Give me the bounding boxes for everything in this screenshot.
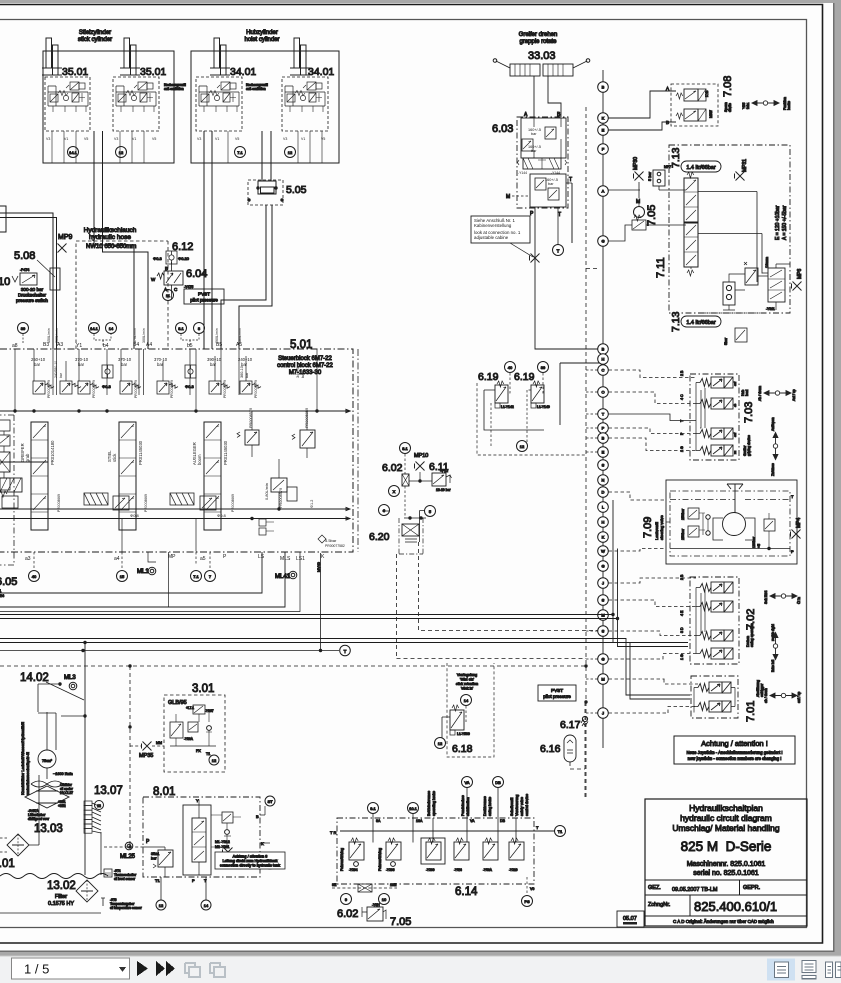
svg-text:PR0008579: PR0008579 xyxy=(170,380,174,398)
svg-text:PR01145030: PR01145030 xyxy=(138,440,143,465)
svg-text:Greifer drehen: Greifer drehen xyxy=(519,32,558,38)
svg-text:V1: V1 xyxy=(132,137,136,141)
svg-text:auf / up: auf / up xyxy=(797,692,801,703)
connector circle 12b xyxy=(285,147,296,158)
svg-text:13.01: 13.01 xyxy=(0,858,15,870)
filter 13.02 xyxy=(76,880,98,902)
svg-text:load: load xyxy=(745,389,749,396)
small valve below xyxy=(735,328,747,342)
svg-text:control block 6M7-22: control block 6M7-22 xyxy=(277,363,333,369)
svg-text:stick retention: stick retention xyxy=(456,682,478,686)
svg-text:14: 14 xyxy=(204,903,209,908)
inner dash-dot xyxy=(670,491,790,556)
svg-text:MM: MM xyxy=(156,741,162,745)
right circles xyxy=(265,796,275,806)
svg-text:M: M xyxy=(601,677,604,682)
7.11 spool lower xyxy=(684,223,698,267)
svg-text:18-19 bar: 18-19 bar xyxy=(436,488,451,492)
fan xyxy=(31,768,63,787)
oval 1.4ltr top xyxy=(681,161,721,172)
secondary valves right xyxy=(237,366,345,548)
svg-text:T: T xyxy=(557,249,560,254)
svg-text:14.02: 14.02 xyxy=(20,672,49,684)
svg-text:bar: bar xyxy=(245,372,249,378)
svg-text:grapple rotate: grapple rotate xyxy=(519,39,557,45)
svg-text:170L/min: 170L/min xyxy=(133,328,137,343)
LS return wire xyxy=(0,552,262,593)
lower manifold xyxy=(530,174,566,207)
valve 6.18 xyxy=(452,705,459,711)
svg-text:L1-Y149: L1-Y149 xyxy=(537,405,550,409)
svg-text:B: B xyxy=(602,85,605,90)
tank wavy line xyxy=(0,874,108,879)
valves xyxy=(340,838,364,872)
dashed line y666 xyxy=(0,665,586,667)
small body xyxy=(402,474,409,486)
svg-text:ST: ST xyxy=(267,799,273,804)
long wire to 7.02 P xyxy=(0,615,688,643)
circle 14 xyxy=(461,695,472,706)
svg-text:7.01: 7.01 xyxy=(745,701,757,722)
svg-text:new joysticks - connection num: new joysticks - connection numbers are c… xyxy=(688,756,782,761)
svg-text:P: P xyxy=(791,549,794,554)
svg-text:6.05: 6.05 xyxy=(0,576,17,588)
svg-text:2 B: 2 B xyxy=(680,370,684,376)
svg-text:Kabinenverstellung: Kabinenverstellung xyxy=(474,223,512,228)
svg-text:7.1: 7.1 xyxy=(237,150,243,155)
svg-text:MP4: MP4 xyxy=(796,518,802,529)
svg-text:T R: T R xyxy=(330,830,336,835)
svg-text:5.5bar: 5.5bar xyxy=(325,538,337,543)
dashed valve box 2 xyxy=(113,77,159,131)
svg-text:825 M D-Serie: 825 M D-Serie xyxy=(681,839,772,854)
svg-text:180bar: 180bar xyxy=(752,536,756,548)
svg-text:8.01: 8.01 xyxy=(153,786,175,798)
svg-text:Ab / down: Ab / down xyxy=(758,386,762,401)
dashed box 6.19 xyxy=(477,383,586,455)
circle 12 xyxy=(517,441,528,452)
svg-text:6.19: 6.19 xyxy=(478,371,499,383)
svg-text:5.05: 5.05 xyxy=(286,184,307,196)
bottom line xyxy=(0,912,101,914)
svg-text:14.1: 14.1 xyxy=(69,150,78,155)
svg-text:bar: bar xyxy=(548,182,554,186)
risers to 7.09 xyxy=(613,500,618,619)
svg-text:-Y475: -Y475 xyxy=(184,285,193,289)
svg-text:Y: Y xyxy=(196,798,199,803)
svg-text:O: O xyxy=(601,390,604,395)
port labels xyxy=(680,370,684,452)
svg-text:B: B xyxy=(165,266,168,271)
wire from block to bus at 362 xyxy=(560,363,603,425)
svg-text:7.08: 7.08 xyxy=(722,76,734,97)
main gallery line xyxy=(0,409,350,412)
circle 11 xyxy=(163,290,174,301)
vertical feed lines in sections xyxy=(15,349,317,411)
PVST pilot box xyxy=(538,685,576,701)
svg-text:6.03: 6.03 xyxy=(492,123,513,135)
svg-text:9.1: 9.1 xyxy=(370,806,376,811)
svg-text:14: 14 xyxy=(109,326,114,331)
svg-text:180L/min: 180L/min xyxy=(238,328,242,343)
svg-text:MBW: MBW xyxy=(709,110,713,118)
svg-text:300L/min: 300L/min xyxy=(142,328,146,343)
svg-text:3 D: 3 D xyxy=(680,627,684,633)
pilot modules row xyxy=(0,478,235,518)
svg-text:5 bar: 5 bar xyxy=(647,171,652,181)
svg-text:6.02: 6.02 xyxy=(337,908,358,920)
svg-text:7.1: 7.1 xyxy=(193,574,199,579)
circle 39 xyxy=(18,323,29,334)
svg-text:P: P xyxy=(602,426,605,431)
dash-dot box xyxy=(690,374,739,460)
svg-text:-P474: -P474 xyxy=(20,268,29,272)
svg-text:-P15: -P15 xyxy=(28,817,35,821)
wire box2 down to 5.05 right xyxy=(270,131,272,181)
wire from bus y190 xyxy=(609,182,687,198)
svg-text:6.17: 6.17 xyxy=(560,719,581,731)
spring bottom xyxy=(0,491,7,497)
dashed stubs xyxy=(609,679,699,713)
svg-text:PR0008579: PR0008579 xyxy=(92,380,96,398)
svg-text:bar: bar xyxy=(121,362,128,367)
6.17 check xyxy=(582,716,587,721)
steering wheel xyxy=(727,484,743,513)
dashed link y658.5 xyxy=(397,658,587,660)
wire box1 to A4 xyxy=(103,131,149,349)
stems xyxy=(373,788,516,843)
svg-text:LS: LS xyxy=(258,554,265,560)
svg-text:M: M xyxy=(601,613,604,618)
svg-text:12: 12 xyxy=(288,150,293,155)
bottom ports xyxy=(25,554,325,562)
svg-text:Achtung / attention 8: Achtung / attention 8 xyxy=(233,855,268,859)
svg-text:'stick in': 'stick in' xyxy=(461,687,474,691)
relief valves row xyxy=(33,381,54,394)
gauge block xyxy=(723,282,735,305)
orifice mid2 xyxy=(185,365,196,378)
svg-text:V5: V5 xyxy=(152,137,156,141)
svg-text:PX: PX xyxy=(196,749,201,753)
leader from note xyxy=(510,243,533,257)
svg-text:ML25: ML25 xyxy=(120,854,136,860)
wire 5.05 to A5 xyxy=(239,205,272,349)
circle 12 xyxy=(435,738,446,749)
svg-text:C A D Original: Änderungen nur: C A D Original: Änderungen nur über CAD … xyxy=(673,918,774,924)
big dashed elbow xyxy=(419,542,598,631)
svg-text:Steuerblock 6M7-22: Steuerblock 6M7-22 xyxy=(278,356,332,362)
svg-text:hoist cylinder: hoist cylinder xyxy=(244,37,279,43)
svg-text:10A: 10A xyxy=(416,819,423,823)
circle 6 xyxy=(379,505,390,516)
svg-text:V1: V1 xyxy=(301,137,305,141)
svg-text:operating brake: operating brake xyxy=(432,791,436,816)
tiny texts right of valves xyxy=(733,382,737,454)
svg-text:13.07: 13.07 xyxy=(94,785,123,797)
right relief xyxy=(764,519,775,531)
svg-text:a8: a8 xyxy=(12,343,18,349)
svg-text:LS1: LS1 xyxy=(296,556,305,562)
svg-text:MP35: MP35 xyxy=(139,753,153,759)
svg-text:HY-ÖL57: HY-ÖL57 xyxy=(60,791,73,795)
dashed valve box 4 xyxy=(282,77,328,131)
svg-text:PVST: PVST xyxy=(198,292,210,297)
dashes from circle 81 xyxy=(404,454,406,518)
svg-text:6.04: 6.04 xyxy=(186,268,207,280)
svg-text:V5: V5 xyxy=(84,137,88,141)
svg-text:P: P xyxy=(192,878,195,883)
cylinder 4 xyxy=(290,38,310,75)
dashed drop x130 xyxy=(129,666,131,846)
svg-text:Z1: Z1 xyxy=(0,589,1,593)
wires from bus xyxy=(609,91,677,130)
svg-text:VA: VA xyxy=(464,780,469,785)
svg-text:Auf / up: Auf / up xyxy=(792,389,796,401)
svg-text:+P12: +P12 xyxy=(440,469,448,473)
link to circle5 elbow xyxy=(420,511,426,543)
svg-text:1 G: 1 G xyxy=(680,654,684,660)
svg-text:griping device: griping device xyxy=(747,435,751,456)
svg-text:Φ0.8: Φ0.8 xyxy=(130,513,140,518)
svg-text:39: 39 xyxy=(541,365,546,370)
svg-text:14: 14 xyxy=(464,698,469,703)
svg-text:V0: V0 xyxy=(530,887,534,891)
svg-text:GEPR.: GEPR. xyxy=(743,885,761,891)
svg-text:Maschinennr. 825.0.1061: Maschinennr. 825.0.1061 xyxy=(687,861,766,868)
svg-text:B: B xyxy=(256,814,259,819)
svg-text:pressure switch: pressure switch xyxy=(16,298,48,303)
dashed box xyxy=(164,695,225,772)
MP4 xyxy=(791,530,801,539)
svg-text:0-80L/min: 0-80L/min xyxy=(265,483,269,500)
dashes from accumulator xyxy=(570,702,585,798)
svg-text:9A: 9A xyxy=(376,819,381,823)
TOOLBAR xyxy=(0,956,841,983)
svg-text:B: B xyxy=(602,347,605,352)
svg-text:V5: V5 xyxy=(235,137,239,141)
svg-text:a3: a3 xyxy=(25,556,31,562)
svg-text:Φ1.2: Φ1.2 xyxy=(310,500,314,508)
ML25 xyxy=(125,842,133,850)
svg-text:Vorsteuerung: Vorsteuerung xyxy=(515,795,519,816)
big dash-dot box xyxy=(669,145,790,313)
svg-text:T1: T1 xyxy=(558,829,563,834)
svg-text:7.09: 7.09 xyxy=(642,517,654,538)
dash-dot box xyxy=(337,818,534,884)
solenoid valves xyxy=(700,377,733,388)
valve a xyxy=(676,93,683,99)
6.20 valve xyxy=(402,524,419,536)
disabled icon 1 xyxy=(185,963,200,977)
wires to 6.03 xyxy=(534,76,561,117)
svg-text:1 G: 1 G xyxy=(680,446,684,452)
svg-text:adjustable cabine: adjustable cabine xyxy=(474,235,509,240)
svg-text:300-20 bar: 300-20 bar xyxy=(21,287,44,292)
heat exchanger xyxy=(25,786,69,808)
svg-text:1 / 5: 1 / 5 xyxy=(24,962,49,977)
svg-text:7.11: 7.11 xyxy=(655,257,667,278)
svg-text:Pendelachse: Pendelachse xyxy=(461,795,465,816)
svg-text:MP6: MP6 xyxy=(797,269,803,280)
svg-text:S: S xyxy=(602,598,605,603)
svg-text:Hydraulikschaltplan: Hydraulikschaltplan xyxy=(689,803,763,813)
svg-text:stick: stick xyxy=(112,453,117,462)
svg-text:a4: a4 xyxy=(114,556,120,562)
circle 81 xyxy=(400,443,411,454)
top ports xyxy=(12,342,242,349)
svg-text:grab: grab xyxy=(25,453,30,462)
svg-text:5.08: 5.08 xyxy=(14,250,35,262)
svg-text:V3: V3 xyxy=(114,137,118,141)
svg-text:75cm³: 75cm³ xyxy=(42,759,53,763)
T wire solid xyxy=(609,414,697,421)
svg-text:35.01: 35.01 xyxy=(140,66,166,78)
svg-text:7.05: 7.05 xyxy=(390,916,411,928)
svg-text:Sek 8M4: Sek 8M4 xyxy=(764,591,768,604)
svg-text:Φ0.20: Φ0.20 xyxy=(178,256,190,261)
rotary actuator right xyxy=(543,64,573,76)
svg-text:oil temperature sensor: oil temperature sensor xyxy=(110,906,143,910)
svg-text:K: K xyxy=(602,535,605,540)
page right edge xyxy=(833,3,835,952)
svg-text:B: B xyxy=(602,436,605,441)
svg-text:Verriegelung: Verriegelung xyxy=(457,673,477,677)
svg-text:Achtung / attention !: Achtung / attention ! xyxy=(701,739,768,748)
svg-text:Φ0.3: Φ0.3 xyxy=(153,256,163,261)
svg-text:ab / down: ab / down xyxy=(764,688,768,703)
svg-text:Zu/close: Zu/close xyxy=(771,463,775,476)
svg-text:MP31: MP31 xyxy=(742,159,748,172)
svg-text:V3: V3 xyxy=(283,137,287,141)
bottom circles xyxy=(29,571,40,582)
terminal strip 13.07 xyxy=(95,801,104,810)
svg-text:-Y394: -Y394 xyxy=(349,868,358,872)
circle X xyxy=(389,486,400,497)
svg-text:ZchngNr.: ZchngNr. xyxy=(648,902,671,908)
svg-text:MP7: MP7 xyxy=(664,165,671,169)
wires right of 7.11 xyxy=(698,192,762,283)
svg-text:4 E: 4 E xyxy=(680,610,684,616)
svg-text:C: C xyxy=(602,368,605,373)
svg-text:links left: links left xyxy=(771,660,775,672)
5.5bar relief xyxy=(318,535,326,543)
svg-text:control device: control device xyxy=(525,794,529,816)
dashed box xyxy=(447,663,494,757)
svg-text:PS: PS xyxy=(524,899,530,904)
MP6 xyxy=(792,282,802,291)
svg-text:10: 10 xyxy=(0,276,10,288)
upper manifold xyxy=(521,118,566,158)
svg-text:12: 12 xyxy=(119,150,124,155)
svg-text:safety valve: safety valve xyxy=(520,797,524,816)
svg-text:MP30: MP30 xyxy=(633,157,639,170)
svg-text:bar: bar xyxy=(34,362,41,367)
svg-text:240/350-10: 240/350-10 xyxy=(54,361,58,378)
svg-text:ML1: ML1 xyxy=(137,569,149,575)
stubs below block xyxy=(34,552,210,570)
svg-text:6.20: 6.20 xyxy=(369,531,390,543)
svg-text:swing brake: swing brake xyxy=(488,797,492,816)
svg-text:8.1: 8.1 xyxy=(178,326,184,331)
long wire to 7.01 T xyxy=(0,643,690,700)
svg-text:A = 150 +/-5bar: A = 150 +/-5bar xyxy=(782,205,788,240)
svg-text:-Y6%: -Y6% xyxy=(454,868,462,872)
svg-text:6.14: 6.14 xyxy=(455,886,478,898)
svg-text:D: D xyxy=(602,490,605,495)
dashed valve box 1 xyxy=(45,77,90,131)
wire P down xyxy=(535,207,603,349)
svg-text:E = 120 +10bar: E = 120 +10bar xyxy=(775,205,781,240)
valve b xyxy=(676,113,683,119)
disabled icon 2 xyxy=(210,963,225,977)
svg-text:40: 40 xyxy=(508,365,513,370)
svg-text:6.02: 6.02 xyxy=(382,462,403,474)
circles 9 10 PS xyxy=(341,894,352,905)
circle 39 xyxy=(538,362,549,373)
svg-text:DB: DB xyxy=(500,819,506,823)
svg-text:S: S xyxy=(602,629,605,634)
bottom circles xyxy=(161,877,206,900)
svg-text:A: A xyxy=(602,189,605,194)
orifice mid1 xyxy=(102,365,113,378)
svg-text:V1: V1 xyxy=(64,137,68,141)
achtung note small xyxy=(215,852,285,869)
wire box2 down to 5.05 left xyxy=(261,131,263,181)
svg-text:0.1575 HY: 0.1575 HY xyxy=(48,901,74,907)
filter 13.03 xyxy=(7,834,29,856)
svg-text:Leitung direkt zum Hydraulikta: Leitung direkt zum Hydrauliktank xyxy=(222,859,277,863)
svg-text:4 C: 4 C xyxy=(680,394,684,400)
svg-text:-Y144: -Y144 xyxy=(518,171,527,175)
svg-text:bar: bar xyxy=(210,362,217,367)
connector circle 14.1 xyxy=(68,147,79,158)
box 34.01 group xyxy=(191,51,339,163)
svg-text:bar: bar xyxy=(59,372,63,378)
long wire to 7.02 T xyxy=(0,619,688,647)
temperature sensor xyxy=(101,898,105,906)
svg-text:1.4 ltr/66bar: 1.4 ltr/66bar xyxy=(686,320,716,326)
rotated flow labels xyxy=(47,328,242,343)
svg-text:water/intercooler/hydr-öl: water/intercooler/hydr-öl xyxy=(25,752,30,795)
svg-text:Stielzylinder: Stielzylinder xyxy=(79,30,111,36)
coupling 5.05 dashed box xyxy=(248,180,283,205)
svg-text:auf: auf xyxy=(733,433,737,437)
oval 1.4ltr bottom xyxy=(681,316,721,327)
circle 5 xyxy=(425,506,436,517)
svg-text:250bar: 250bar xyxy=(681,528,685,540)
long wires inside block xyxy=(0,462,350,520)
svg-text:T1: T1 xyxy=(155,878,160,883)
next page button xyxy=(137,961,148,976)
svg-text:PR0008579: PR0008579 xyxy=(134,380,138,398)
svg-text:auf: auf xyxy=(733,382,737,386)
bottom dashed with X-box xyxy=(332,887,397,889)
bottom links xyxy=(729,264,790,310)
svg-text:-Y8H: -Y8H xyxy=(372,903,380,907)
svg-text:260L/min: 260L/min xyxy=(55,328,59,343)
svg-text:S: S xyxy=(602,463,605,468)
svg-text:VA: VA xyxy=(470,819,475,823)
T rail xyxy=(340,830,554,832)
cylinder 1 xyxy=(42,38,62,75)
svg-text:10.1: 10.1 xyxy=(409,806,418,811)
svg-text:L1-Y500: L1-Y500 xyxy=(457,732,470,736)
svg-text:+5: +5 xyxy=(757,544,761,548)
svg-text:NW10 650-850mm: NW10 650-850mm xyxy=(86,244,136,250)
wires around pump xyxy=(38,684,85,750)
bus connector circles xyxy=(598,82,609,93)
dash-dot frame around 6.20 xyxy=(399,518,423,554)
